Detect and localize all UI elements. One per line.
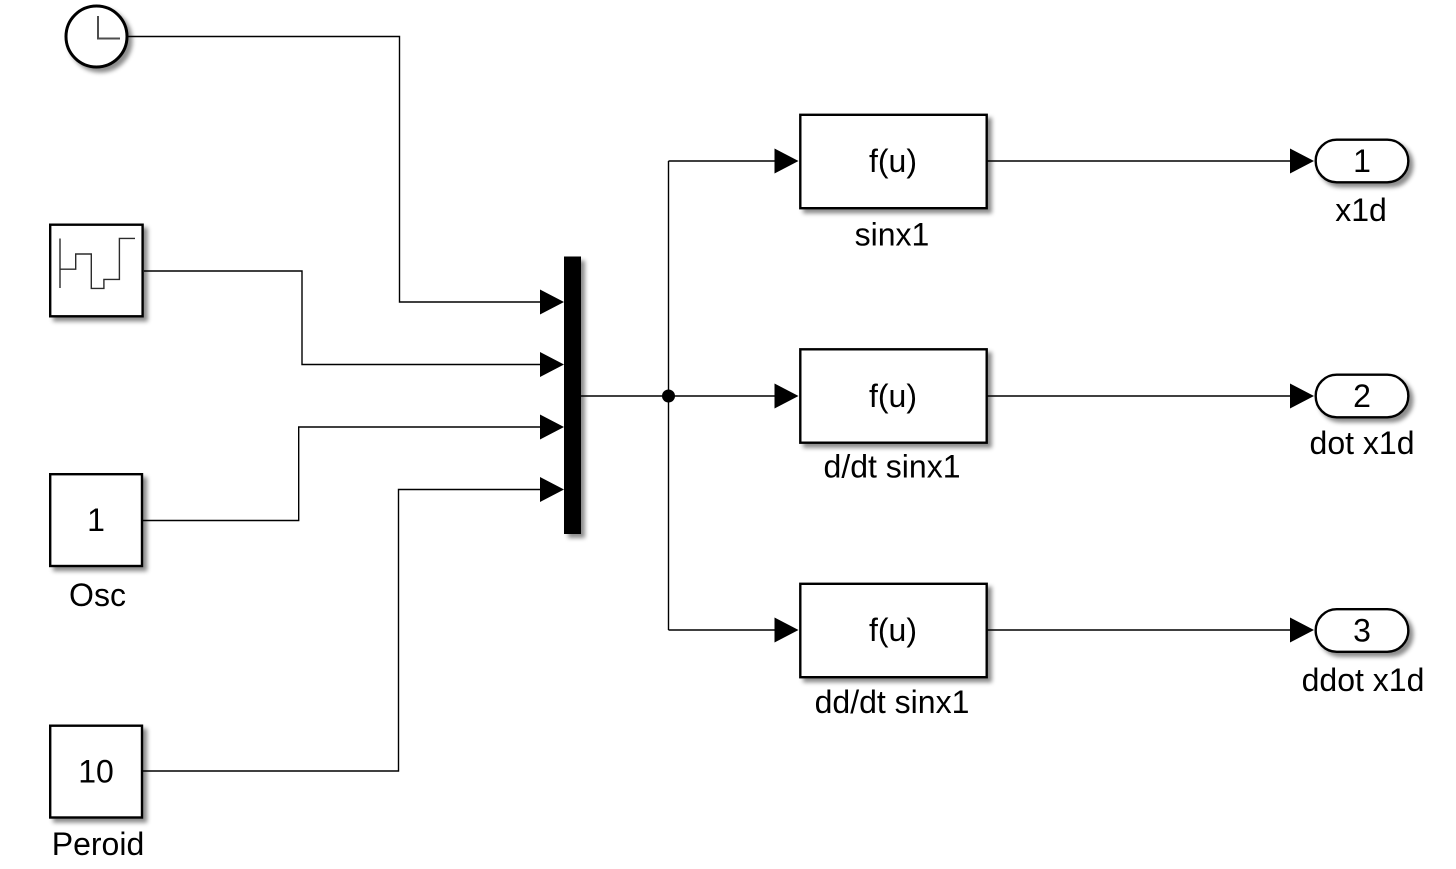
node junction on mux output <box>662 390 675 403</box>
fcn block sinx1 <box>800 115 986 208</box>
svg-text:Peroid: Peroid <box>52 826 145 862</box>
constant block Peroid (value 10) <box>50 726 142 818</box>
svg-text:dd/dt sinx1: dd/dt sinx1 <box>815 684 970 720</box>
clock block (Clock source) <box>66 6 127 67</box>
svg-text:2: 2 <box>1353 378 1371 414</box>
wire branch to Fcn dd/dt sinx1 <box>669 618 799 643</box>
wire branch to Fcn sinx1 <box>669 149 799 174</box>
wire Fcn d/dt sinx1 to Outport 2 <box>988 384 1315 409</box>
constant block Osc (value 1) <box>50 474 142 566</box>
svg-text:1: 1 <box>87 502 105 538</box>
outport 1 <box>1316 140 1409 183</box>
svg-text:f(u): f(u) <box>869 378 917 414</box>
wire Clock to Mux input 1 <box>129 37 565 315</box>
svg-text:Osc: Osc <box>69 577 126 613</box>
svg-text:d/dt sinx1: d/dt sinx1 <box>824 449 961 485</box>
mux block (vertical bar) <box>564 257 581 535</box>
wire Fcn dd/dt sinx1 to Outport 3 <box>988 618 1315 643</box>
fcn block dd/dt sinx1 <box>800 584 986 677</box>
outport 3 <box>1316 609 1409 652</box>
svg-text:1: 1 <box>1353 143 1371 179</box>
svg-text:3: 3 <box>1353 613 1371 649</box>
wire Peroid to Mux input 4 <box>143 477 564 771</box>
svg-text:x1d: x1d <box>1335 192 1387 228</box>
outport 2 <box>1316 375 1409 418</box>
svg-text:f(u): f(u) <box>869 612 917 648</box>
wire Mux output to Fcn d/dt sinx1 <box>581 384 799 409</box>
wire Osc to Mux input 3 <box>143 415 564 521</box>
svg-text:f(u): f(u) <box>869 143 917 179</box>
svg-text:sinx1: sinx1 <box>855 217 930 253</box>
signal builder block <box>50 225 142 317</box>
svg-text:dot x1d: dot x1d <box>1310 425 1415 461</box>
fcn block d/dt sinx1 <box>800 349 986 442</box>
wire Fcn sinx1 to Outport 1 <box>988 149 1315 174</box>
svg-text:10: 10 <box>78 754 114 790</box>
wire branch vertical <box>668 161 670 630</box>
wire Signal Builder to Mux input 2 <box>144 271 564 377</box>
svg-text:ddot x1d: ddot x1d <box>1302 662 1425 698</box>
